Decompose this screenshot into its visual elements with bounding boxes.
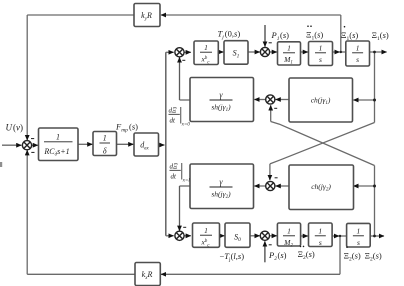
svg-text:Ξ1(s): Ξ1(s)	[306, 30, 323, 42]
svg-text:(0,s): (0,s)	[225, 29, 241, 39]
svg-text:dΞ: dΞ	[170, 163, 179, 171]
svg-text:1: 1	[56, 133, 60, 142]
svg-text:s: s	[356, 55, 359, 64]
svg-text:s: s	[357, 238, 360, 247]
svg-text:1: 1	[287, 227, 291, 236]
svg-text:dΞ: dΞ	[169, 107, 178, 115]
svg-text:sh(jγ2): sh(jγ2)	[211, 190, 231, 201]
svg-text:1: 1	[204, 226, 208, 235]
svg-text:1: 1	[356, 44, 360, 53]
svg-text:1: 1	[103, 134, 107, 143]
svg-text:P1: P1	[271, 30, 280, 42]
svg-text:Ξ2(s): Ξ2(s)	[365, 251, 382, 263]
svg-text:RCдs+1: RCдs+1	[43, 147, 69, 158]
svg-text:Fтр: Fтр	[115, 122, 128, 134]
svg-text:1: 1	[319, 44, 323, 53]
svg-text:sh(jγ1): sh(jγ1)	[211, 103, 231, 114]
svg-text:(s): (s)	[129, 122, 138, 132]
svg-text:Ξ2(s): Ξ2(s)	[298, 249, 315, 261]
svg-text:(s): (s)	[278, 250, 287, 260]
svg-text:1: 1	[318, 227, 322, 236]
svg-text:dt: dt	[170, 117, 177, 125]
svg-text:δ: δ	[103, 147, 107, 156]
svg-text:ch(jγ2): ch(jγ2)	[311, 182, 331, 193]
svg-text:(v): (v)	[13, 123, 23, 133]
svg-text:Ξ1(s): Ξ1(s)	[372, 30, 389, 42]
svg-text:dt: dt	[171, 173, 178, 181]
svg-text:Ξ1(s): Ξ1(s)	[341, 30, 358, 42]
svg-text:s: s	[319, 55, 322, 64]
svg-text:U: U	[6, 123, 13, 133]
svg-text:s: s	[319, 238, 322, 247]
svg-text:1: 1	[204, 43, 208, 52]
svg-text:x=0: x=0	[181, 123, 191, 128]
svg-text:(s): (s)	[280, 30, 289, 40]
svg-text:x=l: x=l	[182, 179, 191, 184]
svg-text:P2: P2	[268, 250, 277, 262]
svg-text:ch(jγ1): ch(jγ1)	[311, 96, 331, 107]
svg-text:Tj: Tj	[218, 29, 225, 41]
svg-text:1: 1	[287, 44, 291, 53]
svg-text:−Tj(l,s): −Tj(l,s)	[220, 251, 245, 263]
svg-text:1: 1	[357, 227, 361, 236]
svg-text:Ξ2(s): Ξ2(s)	[344, 251, 361, 263]
